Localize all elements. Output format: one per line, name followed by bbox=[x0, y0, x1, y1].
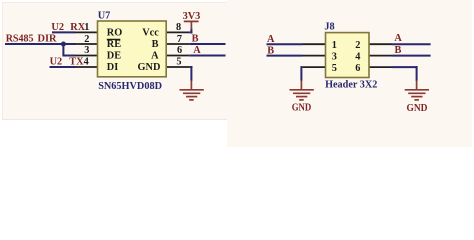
svg-text:J8: J8 bbox=[324, 22, 334, 33]
svg-text:DE: DE bbox=[107, 51, 121, 62]
U7 pin 5 GND bbox=[166, 66, 189, 68]
svg-text:U7: U7 bbox=[98, 11, 111, 22]
svg-text:7: 7 bbox=[177, 34, 182, 45]
wire net B (header left) bbox=[267, 55, 303, 57]
U7 pin 4 DI bbox=[75, 66, 98, 68]
wire net B (header right) bbox=[392, 55, 431, 57]
wire net A bbox=[189, 55, 225, 57]
svg-text:TX: TX bbox=[69, 57, 84, 68]
svg-text:4: 4 bbox=[84, 57, 89, 68]
wire net U2 RX to pin1 bbox=[52, 31, 75, 33]
wire net A (header right) bbox=[392, 43, 431, 45]
svg-text:8: 8 bbox=[176, 22, 181, 33]
svg-text:5: 5 bbox=[176, 57, 181, 68]
svg-text:A: A bbox=[151, 51, 159, 62]
header J8 pin 1 bbox=[303, 43, 326, 45]
svg-text:RE: RE bbox=[107, 39, 121, 50]
IC U7 body bbox=[98, 21, 167, 77]
wire net B bbox=[189, 43, 225, 45]
svg-text:B: B bbox=[395, 45, 402, 56]
svg-text:6: 6 bbox=[177, 45, 182, 56]
svg-text:U2: U2 bbox=[51, 22, 64, 33]
svg-text:B: B bbox=[192, 33, 199, 44]
svg-text:3: 3 bbox=[84, 45, 89, 56]
svg-text:B: B bbox=[267, 46, 274, 57]
ground symbol (header left) bbox=[290, 80, 314, 100]
svg-text:Header 3X2: Header 3X2 bbox=[325, 80, 377, 91]
svg-text:DI: DI bbox=[107, 62, 118, 73]
svg-text:1: 1 bbox=[332, 40, 337, 51]
wire pin5 to ground bbox=[189, 66, 192, 68]
svg-text:GND: GND bbox=[292, 102, 312, 113]
svg-text:2: 2 bbox=[84, 34, 89, 45]
svg-text:GND: GND bbox=[138, 62, 161, 73]
svg-text:A: A bbox=[267, 34, 275, 45]
U7 pin 7 B bbox=[166, 43, 189, 45]
svg-text:Vcc: Vcc bbox=[142, 28, 159, 39]
svg-text:U2: U2 bbox=[50, 57, 63, 68]
U7 pin 2 RE bbox=[75, 43, 98, 45]
ground symbol (U7 pin5) bbox=[180, 80, 204, 100]
svg-text:SN65HVD08D: SN65HVD08D bbox=[98, 81, 162, 92]
svg-text:3: 3 bbox=[332, 51, 337, 62]
svg-text:3V3: 3V3 bbox=[183, 11, 201, 22]
header J8 pin 3 bbox=[303, 55, 326, 57]
svg-text:A: A bbox=[193, 45, 201, 56]
RE overline bbox=[107, 38, 121, 40]
wire net U2 TX to pin4 bbox=[50, 66, 76, 68]
sheet background right panel bbox=[227, 0, 472, 147]
svg-text:RO: RO bbox=[107, 28, 122, 39]
U7 pin 3 DE bbox=[75, 55, 98, 57]
svg-text:4: 4 bbox=[355, 51, 360, 62]
header J8 pin 2 bbox=[369, 43, 392, 45]
header J8 pin 6 bbox=[369, 66, 392, 68]
ground symbol (header right) bbox=[405, 80, 429, 100]
connector J8 body bbox=[326, 33, 370, 78]
U7 pin 1 RO bbox=[75, 31, 98, 33]
svg-text:RX: RX bbox=[70, 22, 85, 33]
wire header pin6 to ground bbox=[392, 66, 418, 68]
U7 pin 6 A bbox=[166, 55, 189, 57]
svg-text:A: A bbox=[394, 33, 402, 44]
wire DIR branch to pin3 bbox=[62, 55, 75, 57]
wire vertical DIR branch bbox=[62, 44, 64, 56]
svg-text:6: 6 bbox=[355, 63, 360, 74]
power port 3V3 bar bbox=[184, 20, 199, 22]
svg-text:RS485: RS485 bbox=[6, 34, 34, 45]
wire header pin5 to ground bbox=[300, 66, 302, 81]
panel frame lines bbox=[2, 2, 227, 4]
svg-text:2: 2 bbox=[355, 40, 360, 51]
wire net RS485 DIR to pin2 bbox=[5, 43, 75, 45]
U7 pin 8 Vcc bbox=[166, 31, 189, 33]
junction dot bbox=[61, 42, 66, 47]
svg-text:5: 5 bbox=[332, 63, 337, 74]
header J8 pin 5 bbox=[303, 66, 326, 68]
header J8 pin 4 bbox=[369, 55, 392, 57]
sheet background left panel bbox=[2, 2, 227, 120]
wire pin8 to 3V3 bbox=[189, 31, 192, 33]
svg-text:GND: GND bbox=[407, 103, 428, 114]
svg-text:B: B bbox=[152, 39, 159, 50]
power port 3V3 stem bbox=[190, 21, 192, 29]
wire net A (header left) bbox=[267, 43, 303, 45]
svg-text:DIR: DIR bbox=[38, 34, 58, 45]
